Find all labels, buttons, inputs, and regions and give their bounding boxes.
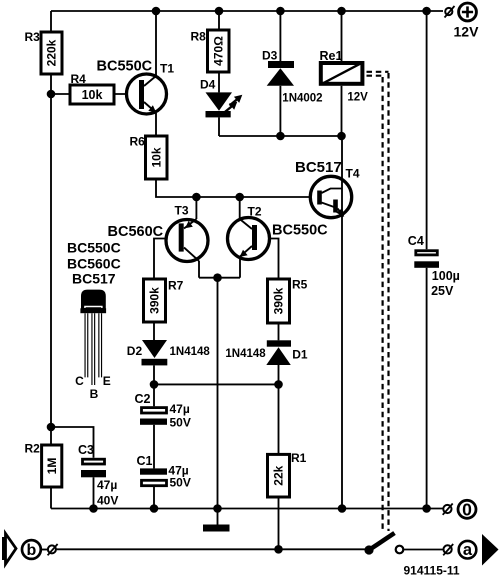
node R2/C3 [47,423,56,432]
relay Re1 [320,49,369,103]
wire D2/D1 link y384.4 [154,383,279,385]
wire R2 node to C3 [51,427,94,458]
wire T2 base to R5 [256,239,279,280]
svg-text:50V: 50V [170,415,191,429]
svg-text:C1: C1 [137,454,153,468]
svg-text:R7: R7 [168,279,184,293]
wire T3 collector down [198,261,200,278]
node ground/0V [213,504,222,513]
wire C4 top line [426,11,428,249]
node D2/C2 [150,380,159,389]
resistor R8 [191,30,230,73]
svg-text:R8: R8 [191,30,207,44]
node D3 top [276,7,285,16]
svg-text:BC517: BC517 [72,271,116,287]
svg-text:T3: T3 [175,204,189,218]
svg-text:C3: C3 [78,443,94,457]
wire C4 bottom line [426,268,428,509]
wire T4 emitter down to 0V rail [341,205,343,509]
wire R1 top line [278,384,280,454]
wire switch to terminal a [404,549,445,551]
svg-text:b: b [27,542,37,559]
transistor T3 BC560C [166,204,208,262]
svg-text:D3: D3 [262,49,278,63]
node R8 top [215,7,224,16]
capacitor C2 [135,392,191,429]
terminal b with arrow [2,534,58,565]
capacitor C3 [78,443,118,508]
resistor R1 [268,451,307,497]
transistor T1 BC550C [127,62,175,115]
wire T3/T2 common y277.7 [199,277,240,279]
svg-text:D1: D1 [292,348,308,362]
relay switch contact [364,533,403,555]
svg-text:Re1: Re1 [320,49,343,63]
wire relay bottom rail y136 [219,135,342,137]
resistor R5 [268,278,308,324]
wire bottom 0V rail [51,508,443,510]
svg-text:BC550C: BC550C [272,223,328,239]
svg-text:E: E [103,374,111,388]
resistor R6 [130,135,168,180]
svg-text:390k: 390k [272,287,286,314]
wire top supply rail [51,10,443,12]
svg-text:BC550C: BC550C [97,59,153,75]
node T1 collector [152,7,161,16]
wire left rail R3 bottom to R2 top [50,74,52,445]
wire T3 base to R7 [154,239,179,280]
svg-text:10k: 10k [82,88,103,102]
svg-text:390k: 390k [148,287,162,314]
label transistor types stack [67,240,121,287]
svg-text:220k: 220k [45,39,59,66]
node C1/0V [150,504,159,513]
wire C3 bottom to 0V rail [93,477,95,508]
resistor R3 [25,30,63,74]
svg-text:D2: D2 [127,344,143,358]
svg-text:R5: R5 [292,278,308,292]
wire D3 bottom stub [279,86,281,136]
wire R4 to T1 base [114,93,139,95]
svg-text:914115-11: 914115-11 [404,564,460,578]
diode D3 1N4002 [262,49,323,105]
svg-text:T1: T1 [160,62,174,76]
capacitor C1 [137,454,191,490]
svg-text:R2: R2 [25,442,41,456]
node R1/switch wire [274,545,283,554]
node ground tap [213,273,222,282]
svg-text:47µ: 47µ [170,402,190,416]
node relay bottom [337,132,346,141]
0V output terminal [443,500,476,520]
svg-text:C2: C2 [135,392,151,406]
diode D2 1N4148 [127,340,211,365]
diode D1 1N4148 [225,340,307,365]
node T3 emitter [192,193,201,202]
resistor R4 [70,72,114,104]
wire R7 bottom to D2 [153,322,155,340]
svg-text:R1: R1 [291,451,307,465]
svg-text:22k: 22k [272,465,286,485]
svg-text:1N4002: 1N4002 [282,92,322,104]
svg-text:T2: T2 [248,205,262,219]
wire T4 collector line [341,136,343,190]
svg-text:25V: 25V [431,284,454,298]
transistor T4 BC517 [310,167,360,218]
svg-text:0: 0 [462,500,472,520]
wire T2 emitter down [239,257,241,278]
svg-text:1N4148: 1N4148 [170,346,211,358]
svg-text:10k: 10k [149,147,163,167]
wire R5 bottom to D1 [278,323,280,340]
svg-text:D4: D4 [200,78,216,92]
+12V supply terminal [445,3,480,39]
ground [203,509,230,532]
svg-text:BC560C: BC560C [108,224,164,240]
wire R8 top stub [218,11,220,30]
wire T3 emitter stub [195,197,197,219]
transistor T2 BC550C [228,205,270,260]
svg-text:R6: R6 [130,135,146,149]
svg-text:40V: 40V [97,494,118,508]
wire relay coil top stub [341,11,343,61]
svg-text:12V: 12V [454,24,480,40]
node D3 bottom [276,132,285,141]
wire R1 bottom through rail to switch wire [278,497,280,549]
capacitor C4 [408,234,460,298]
relay actuator dashed linkage [367,72,389,531]
svg-text:50V: 50V [170,475,191,489]
svg-text:T4: T4 [346,167,360,181]
wire C1 to 0V rail [153,486,155,509]
node T2 collector [235,193,244,202]
wire R3 node to R4 [51,93,70,95]
svg-text:BC550C: BC550C [67,240,121,256]
wire C2 to C1 [153,425,155,469]
wire R6 bottom to base rail y197 [156,179,310,197]
wire node to C2 [153,384,155,406]
wire relay coil bottom stub [341,86,343,136]
svg-text:R3: R3 [25,30,41,44]
resistor R7 [144,279,184,323]
svg-text:B: B [90,387,99,401]
svg-text:470Ω: 470Ω [211,36,225,66]
svg-text:BC560C: BC560C [67,256,121,272]
node T4 emitter/0V [338,504,347,513]
node R3/R4 [47,90,56,99]
wire terminal b to switch [55,548,366,550]
resistor R2 [25,442,62,488]
node C4 top [422,7,431,16]
wire D3 top stub [279,11,281,61]
wire D4 cathode to relay rail [218,117,220,136]
wire left rail upper (R3 top stub) [50,11,52,32]
svg-text:C: C [75,374,84,388]
svg-text:1N4148: 1N4148 [225,348,266,360]
node C4/0V [422,504,431,513]
wire D1 anode down [278,365,280,384]
wire T1 emitter to R6 [155,113,157,136]
node relay top [337,7,346,16]
wire T2 collector stub [239,197,241,219]
wire D2 cathode down [153,366,155,385]
node D1/R1 [274,380,283,389]
svg-text:R4: R4 [71,72,87,86]
TO-92 package pinout [75,290,111,401]
wire T1 collector to top rail [155,11,157,76]
svg-text:12V: 12V [347,91,368,103]
node C3/0V [89,504,98,513]
svg-text:100µ: 100µ [432,269,460,283]
LED D4 [200,78,242,118]
wire ground line from node [217,278,219,509]
terminal a with arrow [443,534,498,566]
wire left rail R2 bottom to ground rail [50,487,52,509]
svg-text:47µ: 47µ [97,478,117,492]
wire R8 bottom to LED D4 [218,72,220,92]
svg-text:1M: 1M [45,458,59,475]
svg-text:BC517: BC517 [295,159,342,176]
svg-text:C4: C4 [408,234,424,248]
svg-text:a: a [463,541,473,559]
